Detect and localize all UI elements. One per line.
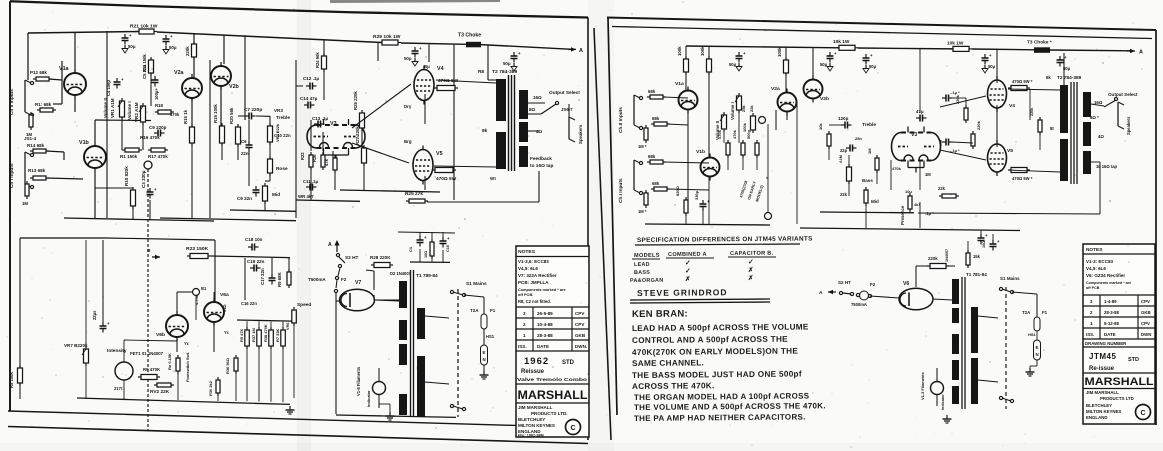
svg-text:F2: F2: [341, 277, 347, 282]
svg-text:ENGLAND: ENGLAND: [1086, 415, 1107, 420]
svg-text:Ch.II Inputs: Ch.II Inputs: [618, 107, 624, 133]
svg-text:Treble: Treble: [862, 122, 876, 128]
svg-text:CONTROL AND A 500pf ACROSS THE: CONTROL AND A 500pf ACROSS THE: [632, 335, 788, 345]
svg-text:100k: 100k: [777, 47, 782, 57]
svg-text:WR 4k7: WR 4k7: [298, 194, 314, 199]
svg-text:C6: C6: [241, 139, 247, 144]
svg-text:51Ω: 51Ω: [222, 304, 227, 312]
svg-text:1962: 1962: [524, 356, 549, 367]
svg-text:S1 Mains: S1 Mains: [466, 281, 487, 287]
svg-text:4.7nσ: 4.7nσ: [194, 294, 199, 305]
svg-text:C10 22n: C10 22n: [274, 133, 291, 138]
svg-text:STD: STD: [1128, 357, 1139, 363]
svg-text:S2 HT: S2 HT: [345, 255, 359, 261]
svg-text:off PCB.: off PCB.: [518, 293, 533, 297]
svg-text:B: B: [147, 248, 151, 254]
svg-text:1M: 1M: [22, 201, 28, 206]
svg-text:Volume I: Volume I: [730, 102, 735, 120]
svg-text:10Ω: 10Ω: [424, 251, 428, 258]
svg-text:R8: R8: [478, 69, 484, 75]
svg-text:R1 150k: R1 150k: [120, 154, 138, 159]
svg-text:R38 470K: R38 470K: [263, 324, 268, 342]
svg-text:Feedback: Feedback: [530, 156, 552, 162]
svg-text:Wτ: Wτ: [490, 176, 496, 181]
svg-text:R5 47K: R5 47K: [239, 328, 244, 342]
svg-text:R13 68k: R13 68k: [28, 168, 46, 173]
svg-text:470K(270K ON EARLY MODELS)ON T: 470K(270K ON EARLY MODELS)ON THE: [632, 347, 798, 357]
svg-text:Ch.I Inputs: Ch.I Inputs: [618, 178, 624, 203]
svg-text:10-4-88: 10-4-88: [537, 322, 553, 327]
svg-text:VR6: VR6: [286, 323, 290, 330]
svg-text:V4: V4: [1009, 103, 1015, 109]
svg-text:C18 10n: C18 10n: [245, 237, 263, 242]
svg-text:VR1 A1M: VR1 A1M: [110, 98, 115, 118]
svg-text:T3 Choke *: T3 Choke *: [1027, 40, 1052, 46]
svg-text:T2A: T2A: [470, 308, 479, 313]
svg-text:VR2 A1M: VR2 A1M: [134, 102, 139, 122]
svg-text:10k 1W: 10k 1W: [833, 39, 850, 45]
svg-text:R9 68K: R9 68K: [277, 271, 282, 287]
svg-text:VR7 B220k: VR7 B220k: [64, 343, 88, 348]
svg-text:330μ: 330μ: [694, 190, 699, 200]
svg-text:V5: V5: [436, 151, 443, 157]
svg-text:16Ω: 16Ω: [533, 95, 542, 100]
svg-text:HS1: HS1: [1028, 332, 1036, 337]
svg-text:7500mA: 7500mA: [851, 302, 867, 307]
svg-text:R36 56Ω: R36 56Ω: [225, 358, 230, 374]
svg-text:✗: ✗: [748, 274, 754, 282]
svg-text:THE ORGAN MODEL HAD A 100pf AC: THE ORGAN MODEL HAD A 100pf ACROSS: [634, 391, 810, 402]
svg-text:R30 2k2: R30 2k2: [208, 380, 213, 396]
svg-text:10k 1W: 10k 1W: [947, 41, 964, 47]
svg-text:LEAD HAD A 500pf ACROSS THE VO: LEAD HAD A 500pf ACROSS THE VOLUME: [632, 322, 809, 333]
svg-text:47k: 47k: [324, 158, 329, 166]
svg-text:R7 33K: R7 33K: [275, 328, 280, 342]
svg-text:22n: 22n: [241, 151, 249, 156]
svg-text:C7 220p: C7 220p: [244, 107, 262, 113]
svg-text:PRODUCTS LTD: PRODUCTS LTD: [1100, 396, 1134, 401]
svg-text:Rn 0.15K: Rn 0.15K: [167, 353, 172, 370]
svg-text:16 16Ω tap: 16 16Ω tap: [1096, 164, 1118, 169]
svg-text:✗: ✗: [748, 266, 754, 274]
svg-text:4Ω: 4Ω: [1098, 134, 1104, 139]
svg-text:S1 Mains: S1 Mains: [1000, 276, 1020, 281]
svg-text:LEAD: LEAD: [634, 262, 650, 268]
svg-text:A: A: [579, 48, 583, 54]
svg-text:Volume I: Volume I: [127, 101, 132, 120]
svg-text:V3: V3: [330, 121, 337, 127]
svg-text:1M *: 1M *: [638, 144, 647, 149]
svg-text:DRAWING NUMBER: DRAWING NUMBER: [1085, 341, 1127, 346]
svg-text:220k: 220k: [928, 256, 938, 261]
svg-text:R19 100k: R19 100k: [213, 104, 218, 123]
svg-text:C3 330μ: C3 330μ: [141, 170, 146, 188]
svg-text:220k: 220k: [976, 120, 981, 130]
svg-text:CAPACITOR B.: CAPACITOR B.: [730, 251, 774, 257]
svg-text:8k: 8k: [482, 128, 488, 134]
svg-text:22p: 22p: [840, 148, 848, 153]
svg-text:V1-3 Filaments: V1-3 Filaments: [920, 371, 925, 400]
svg-text:50μ: 50μ: [404, 56, 412, 61]
svg-text:V1a: V1a: [675, 81, 684, 87]
svg-text:470Ω 5W *: 470Ω 5W *: [1012, 176, 1033, 181]
svg-text:Presence: Presence: [900, 205, 905, 225]
svg-text:STEVE GRINDROD: STEVE GRINDROD: [637, 287, 728, 298]
svg-text:JTM45: JTM45: [1089, 352, 1116, 361]
svg-text:GKB: GKB: [1141, 310, 1151, 315]
svg-text:22k: 22k: [749, 105, 754, 112]
svg-text:C19 22n: C19 22n: [247, 259, 265, 264]
svg-text:V2a: V2a: [771, 86, 780, 92]
svg-text:THE PA AMP HAD NEITHER CAPACIT: THE PA AMP HAD NEITHER CAPACITORS.: [634, 413, 806, 423]
svg-text:A1M: A1M: [839, 155, 843, 163]
svg-text:10Ω: 10Ω: [982, 241, 986, 248]
svg-text:Drγ: Drγ: [404, 104, 412, 109]
svg-text:220k: 220k: [185, 46, 190, 56]
svg-text:DATE: DATE: [537, 344, 549, 349]
svg-text:50μ: 50μ: [869, 64, 877, 69]
svg-text:V1-3: ECC83: V1-3: ECC83: [1086, 259, 1114, 264]
svg-text:V6: V6: [903, 281, 909, 287]
svg-text:R28 220K: R28 220K: [370, 255, 391, 260]
svg-text:N: N: [1036, 352, 1039, 357]
svg-text:JIM MARSHALL: JIM MARSHALL: [1086, 390, 1119, 395]
svg-text:CPV: CPV: [575, 322, 584, 327]
svg-text:DWN: DWN: [1141, 332, 1151, 337]
svg-text:Indicator: Indicator: [941, 394, 945, 410]
svg-text:ISS.: ISS.: [1086, 332, 1094, 337]
svg-text:BLETCHLEY: BLETCHLEY: [1086, 403, 1112, 408]
svg-text:FET1 01 1N4007: FET1 01 1N4007: [130, 351, 164, 356]
svg-text:R10 820k: R10 820k: [124, 166, 129, 186]
svg-text:RV2 22K: RV2 22K: [150, 389, 170, 395]
svg-text:A: A: [819, 290, 823, 296]
svg-text:V2a: V2a: [174, 70, 184, 76]
svg-text:Bμ: Bμ: [424, 64, 430, 69]
svg-text:Speakers: Speakers: [1126, 116, 1131, 135]
svg-text:T2A: T2A: [1022, 310, 1031, 315]
svg-text:MILTON KEYNES: MILTON KEYNES: [518, 423, 555, 428]
svg-text:25k: 25k: [741, 105, 746, 112]
svg-text:Brg: Brg: [404, 139, 412, 144]
svg-text:STD: STD: [562, 360, 575, 366]
svg-text:8Ω *: 8Ω *: [1090, 115, 1099, 120]
svg-text:✓: ✓: [748, 259, 754, 266]
svg-text:A: A: [328, 242, 332, 248]
svg-text:DATE: DATE: [1104, 332, 1116, 337]
svg-text:V6b: V6b: [156, 332, 165, 338]
svg-text:470Ω 5W *: 470Ω 5W *: [1012, 79, 1033, 84]
svg-text:V4: V4: [437, 66, 444, 72]
svg-text:4Ω: 4Ω: [536, 129, 543, 134]
svg-text:68k: 68k: [648, 154, 656, 159]
svg-text:R22: R22: [300, 152, 305, 160]
svg-text:Indicator: Indicator: [366, 390, 371, 407]
svg-text:CPV: CPV: [575, 311, 584, 316]
svg-text:Ch II Inputs: Ch II Inputs: [9, 89, 15, 115]
svg-text:1-4-89: 1-4-89: [1104, 299, 1117, 304]
svg-text:C9 220p: C9 220p: [149, 125, 167, 130]
svg-text:R23 150K: R23 150K: [186, 246, 209, 252]
svg-text:Speed: Speed: [297, 302, 311, 308]
svg-text:CPV: CPV: [1141, 321, 1150, 326]
svg-text:C5 22n: C5 22n: [142, 64, 147, 79]
svg-text:V2b: V2b: [229, 84, 240, 90]
svg-text:R1: 68k: R1: 68k: [35, 102, 52, 107]
svg-text:217τ: 217τ: [114, 386, 123, 391]
svg-text:Valve Tremolo Combo: Valve Tremolo Combo: [517, 377, 587, 383]
svg-text:R37 1M: R37 1M: [251, 327, 256, 342]
svg-text:Reissue: Reissue: [521, 369, 545, 375]
svg-text:PRODUCTS LTD.: PRODUCTS LTD.: [531, 411, 568, 416]
svg-text:R14 68k: R14 68k: [27, 143, 45, 148]
svg-text:V4,5: 6L6: V4,5: 6L6: [1086, 266, 1106, 271]
svg-text:V1b: V1b: [696, 149, 705, 155]
svg-text:C1: C1: [408, 246, 413, 252]
svg-text:✗: ✗: [685, 275, 691, 283]
svg-text:470k: 470k: [717, 129, 722, 139]
svg-text:R15 1k: R15 1k: [183, 109, 188, 124]
svg-text:V4,5: 6L6: V4,5: 6L6: [518, 266, 538, 271]
svg-text:V1a: V1a: [59, 66, 69, 72]
svg-text:F1: F1: [490, 308, 496, 313]
svg-text:V1-3,6: ECC83: V1-3,6: ECC83: [518, 259, 549, 264]
svg-text:ISS.: ISS.: [518, 344, 527, 349]
svg-text:Volume II: Volume II: [103, 98, 108, 118]
svg-text:26-5-89: 26-5-89: [537, 311, 553, 316]
svg-text:DWN.: DWN.: [575, 344, 587, 349]
svg-text:-.1μ *: -.1μ *: [950, 90, 960, 95]
svg-text:CPV: CPV: [1141, 299, 1150, 304]
svg-text:B1: B1: [201, 286, 207, 291]
svg-text:PCB: JMPLLA: PCB: JMPLLA: [518, 280, 549, 285]
svg-text:R18: R18: [155, 103, 164, 108]
svg-text:P12 68k: P12 68k: [30, 70, 47, 75]
svg-text:10μ: 10μ: [905, 189, 912, 194]
svg-text:V3: V3: [911, 132, 917, 138]
svg-text:JIM MARSHALL: JIM MARSHALL: [518, 405, 553, 410]
svg-text:COMBINED A: COMBINED A: [668, 252, 707, 258]
svg-text:100k: 100k: [700, 46, 705, 56]
svg-text:N: N: [483, 357, 486, 362]
svg-text:15k: 15k: [973, 254, 981, 259]
svg-text:D2 1N4007: D2 1N4007: [390, 271, 412, 276]
svg-text:E: E: [483, 350, 486, 355]
svg-text:Output Select: Output Select: [549, 90, 580, 96]
svg-text:R20 56k: R20 56k: [229, 107, 234, 124]
svg-text:R27 220k: R27 220k: [355, 126, 360, 145]
svg-text:S2 HT: S2 HT: [838, 280, 851, 285]
svg-text:Footswitch Sw1: Footswitch Sw1: [185, 351, 190, 382]
svg-text:120p: 120p: [838, 116, 849, 121]
svg-text:V6: GZ34 Rectifier: V6: GZ34 Rectifier: [1086, 273, 1125, 278]
svg-text:V7: 322A Rectifier: V7: 322A Rectifier: [518, 273, 557, 278]
svg-text:off PCB: off PCB: [1086, 286, 1100, 290]
svg-text:1M: 1M: [925, 172, 931, 177]
svg-text:Components marked * are: Components marked * are: [1086, 281, 1131, 285]
svg-text:C: C: [1140, 410, 1145, 417]
svg-text:ACROSS THE 470K.: ACROSS THE 470K.: [632, 381, 715, 391]
svg-text:*: *: [766, 176, 768, 182]
svg-text:R25 220k: R25 220k: [353, 91, 358, 110]
svg-text:Components marked * are: Components marked * are: [518, 288, 566, 292]
svg-text:R24 50k: R24 50k: [315, 52, 320, 68]
svg-text:VR3: VR3: [274, 108, 283, 113]
svg-text:50μ: 50μ: [503, 61, 511, 66]
svg-text:THE BASS MODEL JUST HAD ONE 50: THE BASS MODEL JUST HAD ONE 500pf: [632, 370, 802, 380]
svg-text:NOTES: NOTES: [1086, 247, 1102, 253]
svg-text:✓: ✓: [685, 260, 691, 267]
svg-text:50μ: 50μ: [988, 64, 996, 69]
svg-text:THE VOLUME AND A 500pf ACROSS: THE VOLUME AND A 500pf ACROSS THE 470K.: [634, 401, 826, 412]
svg-text:C9 22n: C9 22n: [237, 196, 252, 201]
svg-text:22k: 22k: [840, 192, 848, 197]
svg-text:25n: 25n: [855, 136, 862, 141]
svg-text:Speakers: Speakers: [578, 124, 583, 144]
svg-text:68k: 68k: [652, 181, 660, 186]
svg-text:Re-issue: Re-issue: [1089, 366, 1115, 372]
svg-text:V1b: V1b: [79, 140, 90, 146]
svg-text:470k: 470k: [170, 112, 180, 117]
svg-text:6k: 6k: [1046, 75, 1051, 80]
svg-text:File: 1962-38M: File: 1962-38M: [518, 434, 544, 438]
svg-text:470Ω 5W: 470Ω 5W: [436, 176, 457, 182]
svg-text:28-3-88: 28-3-88: [537, 333, 553, 338]
svg-text:BASS: BASS: [634, 270, 650, 276]
svg-text:V2b: V2b: [820, 96, 829, 102]
svg-text:BLETCHLEY: BLETCHLEY: [518, 417, 545, 422]
svg-text:220k: 220k: [1030, 107, 1034, 116]
svg-text:Rose: Rose: [276, 166, 288, 172]
svg-text:HS1: HS1: [486, 334, 495, 339]
svg-text:5-12-88: 5-12-88: [1104, 321, 1120, 326]
svg-text:NOTES: NOTES: [518, 249, 536, 255]
svg-text:50μ: 50μ: [169, 45, 177, 50]
svg-text:R26: R26: [312, 154, 317, 162]
svg-text:100k: 100k: [677, 46, 682, 56]
svg-text:F1: F1: [1042, 310, 1048, 315]
svg-text:PA&ORGAN: PA&ORGAN: [630, 278, 664, 284]
svg-text:C14 47μ: C14 47μ: [300, 96, 318, 101]
svg-text:Mid: Mid: [871, 199, 879, 204]
svg-text:E: E: [1036, 345, 1039, 350]
svg-text:50μ: 50μ: [128, 44, 136, 49]
svg-text:28-3-88: 28-3-88: [1104, 310, 1120, 315]
svg-text:to 16Ω tap: to 16Ω tap: [530, 163, 553, 169]
svg-text:JS1-4: JS1-4: [24, 136, 37, 141]
svg-text:T1 781-84: T1 781-84: [966, 272, 987, 277]
svg-text:C15: C15: [446, 245, 450, 252]
svg-text:100μ+: 100μ+: [154, 88, 159, 100]
svg-text:470k: 470k: [732, 129, 737, 139]
svg-text:GKB: GKB: [575, 333, 586, 338]
svg-text:KEN BRAN:: KEN BRAN:: [632, 309, 688, 320]
svg-text:A: A: [1139, 50, 1143, 56]
svg-text:68k: 68k: [648, 89, 656, 94]
svg-text:R21 10k 1W: R21 10k 1W: [130, 24, 158, 30]
svg-text:V7: V7: [355, 280, 361, 286]
svg-text:R25 27k: R25 27k: [405, 191, 423, 197]
svg-text:C4 100μ: C4 100μ: [106, 80, 111, 96]
svg-text:R29 10k 1W: R29 10k 1W: [373, 34, 401, 40]
svg-text:R17 470k: R17 470k: [148, 154, 168, 159]
svg-text:Mid: Mid: [272, 192, 280, 198]
svg-text:T2 784-389: T2 784-389: [492, 69, 518, 75]
svg-text:C12 .1μ: C12 .1μ: [303, 76, 319, 81]
svg-text:Treble: Treble: [276, 115, 290, 121]
svg-text:R5 100K: R5 100K: [9, 372, 14, 388]
svg-text:F2: F2: [870, 282, 876, 287]
svg-text:T1 789-84: T1 789-84: [416, 273, 438, 279]
svg-text:100k: 100k: [742, 122, 747, 132]
svg-text:4k7: 4k7: [914, 203, 920, 207]
svg-text:1M *: 1M *: [638, 209, 647, 214]
svg-text:V1-6 Filaments: V1-6 Filaments: [356, 366, 361, 396]
svg-text:T2 784-389: T2 784-389: [1057, 75, 1082, 81]
svg-text:22k: 22k: [938, 186, 946, 191]
svg-text:8Ω: 8Ω: [529, 107, 536, 112]
svg-text:10k: 10k: [818, 123, 823, 130]
svg-text:MARSHALL: MARSHALL: [1085, 376, 1154, 388]
svg-text:Yε: Yε: [184, 341, 189, 346]
svg-text:C17 22n: C17 22n: [260, 268, 265, 285]
svg-text:Output Select: Output Select: [1108, 92, 1138, 97]
svg-text:MODELS: MODELS: [634, 253, 660, 259]
svg-text:8t: 8t: [1050, 126, 1054, 131]
svg-text:MILTON KEYNES: MILTON KEYNES: [1086, 409, 1121, 414]
svg-text:✓: ✓: [685, 268, 691, 275]
svg-text:V5: V5: [1007, 148, 1013, 154]
svg-text:820Ω: 820Ω: [675, 186, 680, 196]
svg-text:R9 470K: R9 470K: [143, 367, 161, 372]
svg-text:Yε: Yε: [224, 330, 229, 335]
svg-text:T500mA: T500mA: [308, 277, 326, 282]
svg-text:1M: 1M: [867, 148, 872, 154]
svg-text:1N4007: 1N4007: [945, 249, 949, 262]
svg-text:C16 22n: C16 22n: [241, 301, 257, 306]
svg-text:R8, C2 not fitted.: R8, C2 not fitted.: [518, 299, 551, 304]
svg-text:MARSHALL: MARSHALL: [518, 388, 589, 402]
svg-text:T3 Choke: T3 Choke: [458, 33, 481, 39]
svg-text:470k: 470k: [892, 166, 902, 171]
svg-text:JS6-7: JS6-7: [561, 107, 573, 112]
svg-text:SAME CHANNEL.: SAME CHANNEL.: [632, 358, 704, 368]
svg-text:68k: 68k: [652, 116, 660, 121]
svg-text:C13 .1μ: C13 .1μ: [312, 116, 328, 121]
svg-text:V6a: V6a: [220, 292, 229, 298]
svg-text:22μs: 22μs: [92, 310, 97, 320]
svg-text:Ch I Inputs: Ch I Inputs: [9, 163, 15, 188]
svg-text:Bass: Bass: [862, 178, 873, 183]
